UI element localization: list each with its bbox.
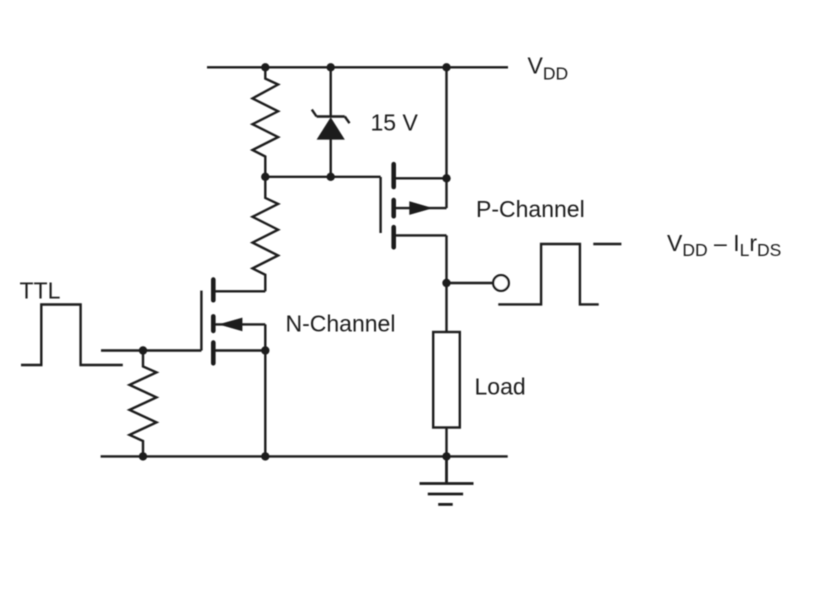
svg-text:N-Channel: N-Channel	[286, 311, 396, 337]
node R3-ground junction	[139, 452, 147, 460]
svg-text:VDD – ILrDS: VDD – ILrDS	[667, 230, 781, 260]
node Q1 source-body junction	[261, 346, 269, 354]
wire ground rail	[101, 455, 508, 457]
TTL input waveform	[21, 305, 123, 366]
node output junction	[442, 279, 450, 287]
ground symbol	[420, 456, 474, 504]
load resistor (box)	[433, 332, 460, 428]
wire TTL input	[101, 349, 201, 351]
output terminal circle	[493, 275, 509, 291]
wire Q1 source to ground	[264, 351, 266, 457]
wire load to ground	[445, 428, 447, 457]
svg-text:TTL: TTL	[20, 278, 61, 304]
wire VDD rail	[207, 66, 508, 68]
wire output to terminal	[447, 282, 494, 284]
resistor R1	[253, 67, 279, 177]
resistor R3	[130, 351, 157, 457]
zener diode D1	[312, 67, 350, 177]
node Q1 source-ground junction	[261, 452, 269, 460]
wire Q2 drain to output node	[445, 235, 447, 332]
node VDD-zener junction	[327, 63, 335, 71]
node VDD-R1 junction	[261, 63, 269, 71]
node R1-R2-zener junction	[261, 173, 269, 181]
svg-text:VDD: VDD	[528, 53, 569, 84]
wire VDD to Q2 source/body	[445, 67, 447, 208]
node input-R3 junction	[139, 346, 147, 354]
resistor R2	[253, 177, 279, 291]
node zener-gate junction	[327, 173, 335, 181]
wire gate node	[265, 176, 380, 178]
svg-text:P-Channel: P-Channel	[476, 196, 585, 222]
svg-text:15 V: 15 V	[371, 110, 419, 136]
output waveform	[498, 244, 598, 304]
output high-level dash	[593, 243, 621, 245]
transistor Q2 P-Channel	[381, 164, 447, 247]
svg-text:Load: Load	[475, 374, 526, 400]
node Q2 source-body junction	[442, 174, 450, 182]
transistor Q1 N-Channel	[201, 280, 265, 364]
node VDD-source junction	[442, 63, 450, 71]
node load-ground junction	[442, 452, 450, 460]
